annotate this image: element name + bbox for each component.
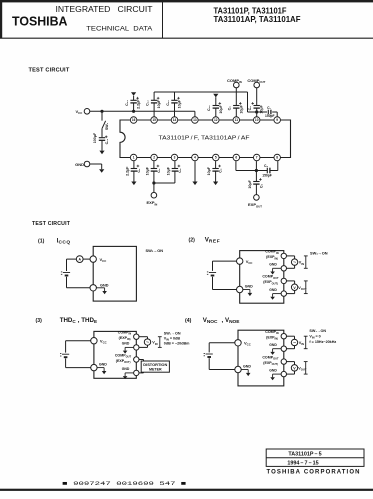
voltmeter VOUT (291, 365, 297, 371)
ground stub lower right (273, 293, 282, 295)
terminal COMP OUT (254, 82, 260, 88)
capacitor C5 10uF (253, 181, 259, 183)
svg-text:(2): (2) (189, 237, 196, 243)
pin VCC left (235, 340, 241, 346)
capacitor C6 150pF bracket (236, 170, 267, 172)
svg-text:f = 15Hz~20kHz: f = 15Hz~20kHz (309, 340, 336, 344)
svg-text:INTEGRATED CIRCUIT: INTEGRATED CIRCUIT (56, 5, 153, 14)
pin 16 (130, 117, 137, 124)
svg-text:TEST CIRCUIT: TEST CIRCUIT (32, 221, 71, 227)
ground below C14 (99, 151, 104, 155)
svg-text:C₁₂: C₁₂ (146, 100, 150, 106)
source VIN s3 (144, 339, 150, 345)
pin 4 (192, 154, 199, 161)
svg-text:C₆: C₆ (264, 164, 268, 168)
ground below pin 4 (192, 182, 197, 186)
svg-text:8: 8 (276, 156, 278, 160)
capacitor C7 150pF (257, 111, 267, 113)
svg-text:DISTORTION: DISTORTION (143, 363, 167, 367)
svg-text:GND: GND (122, 342, 130, 346)
pin GND left (235, 366, 241, 372)
page top border (0, 0, 373, 2)
svg-text:1: 1 (133, 156, 135, 160)
svg-text:SW₁→ON: SW₁→ON (146, 248, 164, 253)
header bottom rule (0, 37, 373, 39)
node VCC-pin16 junction (132, 110, 135, 113)
svg-text:2.2μF: 2.2μF (125, 166, 129, 176)
svg-text:SW₁→ON: SW₁→ON (309, 329, 326, 333)
wire C14 to ground (101, 140, 103, 150)
svg-text:METER: METER (149, 368, 162, 372)
footer bottom rule (0, 489, 373, 491)
pin COMP IN s3 (134, 334, 139, 339)
capacitor C8 10uF (256, 88, 258, 106)
voltmeter VOUT (291, 284, 297, 290)
source VIN sine (291, 339, 297, 345)
terminal COMP IN (234, 82, 240, 88)
pin 2 (151, 154, 158, 161)
svg-text:GND: GND (243, 364, 251, 368)
svg-text:GND: GND (269, 368, 277, 372)
terminal GND (84, 161, 90, 167)
svg-text:C₈: C₈ (248, 106, 252, 111)
wire SW1 to C14 (101, 129, 103, 138)
pin COMP IN (EXP IN) (281, 253, 286, 258)
wire left loop (213, 260, 237, 262)
ground stub upper right (273, 267, 282, 269)
pin COMP OUT (EXP OUT) (281, 278, 286, 283)
pin 14 (171, 117, 178, 124)
svg-text:10μF: 10μF (166, 166, 170, 175)
svg-text:C₁₄: C₁₄ (105, 138, 109, 144)
page left edge bar (0, 0, 2, 38)
svg-text:10μF: 10μF (145, 166, 149, 175)
svg-text:C₅: C₅ (259, 184, 263, 189)
svg-text:15: 15 (152, 118, 156, 122)
svg-text:3: 3 (174, 156, 176, 160)
pin GND upper right (281, 266, 286, 271)
pin 10 (253, 117, 260, 124)
svg-text:10μF: 10μF (248, 179, 252, 188)
wire source loop (287, 255, 295, 257)
ground stub left (97, 367, 104, 369)
svg-text:SW₁→ON: SW₁→ON (164, 331, 181, 335)
battery E (206, 353, 213, 355)
wire left loop (66, 340, 91, 342)
wire source loop s3 (139, 336, 148, 338)
pin GND left (237, 286, 243, 292)
capacitor C10 10uF (215, 108, 217, 117)
wire source loop (287, 335, 295, 337)
ground at GND terminal (99, 169, 104, 173)
pin 11 (233, 117, 240, 124)
source VIN sine (291, 259, 297, 265)
probe bracket VIN (305, 256, 307, 268)
svg-text:10μF: 10μF (207, 166, 211, 175)
pin COMP OUT s3 (134, 357, 139, 362)
svg-text:TECHNICAL DATA: TECHNICAL DATA (86, 26, 153, 33)
terminal EXP IN (151, 192, 157, 198)
wire to distortion meter (139, 359, 144, 361)
footer table (266, 449, 364, 466)
node C8 junction (255, 110, 258, 113)
svg-text:2.2μF: 2.2μF (137, 99, 141, 109)
svg-text:4: 4 (194, 156, 196, 160)
svg-text:TA31101AP, TA31101AF: TA31101AP, TA31101AF (214, 15, 301, 24)
svg-text:10μF: 10μF (219, 104, 223, 113)
capacitor C1 2.2uF (133, 161, 135, 168)
svg-text:■ 9097247 0019699 547 ■: ■ 9097247 0019699 547 ■ (62, 480, 187, 487)
probe bracket VOUT (305, 281, 307, 294)
svg-text:7: 7 (256, 156, 258, 160)
svg-text:(3): (3) (36, 318, 43, 324)
svg-text:16: 16 (132, 118, 136, 122)
ground stub upper right (273, 348, 282, 350)
probe bracket s3 (159, 337, 161, 348)
pin 15 (151, 117, 158, 124)
pin VCC left (237, 258, 243, 264)
terminal VCC (84, 109, 90, 115)
wire pin 4 to ground (194, 161, 196, 181)
svg-text:12: 12 (214, 118, 218, 122)
ground stub s1 (96, 287, 104, 289)
pin GND s1 (90, 285, 96, 291)
probe bracket VOUT (305, 362, 307, 375)
node EXP IN junction (152, 181, 155, 184)
wire pin 6 drop (235, 161, 237, 170)
svg-text:1994 – 7 – 15: 1994 – 7 – 15 (287, 460, 318, 466)
svg-text:GND: GND (269, 288, 277, 292)
svg-text:C₇: C₇ (267, 106, 271, 110)
svg-text:GND: GND (100, 284, 109, 288)
svg-text:(1): (1) (38, 238, 45, 244)
svg-text:100μF: 100μF (93, 132, 97, 143)
terminal EXP OUT (254, 195, 260, 201)
DUT box section 3 (94, 331, 136, 378)
svg-text:GND: GND (122, 367, 130, 371)
svg-text:TEST CIRCUIT: TEST CIRCUIT (29, 68, 70, 74)
switch SW1 (102, 121, 106, 129)
pin 5 (213, 154, 220, 161)
capacitor C11 10uF (174, 103, 176, 117)
ground stub upper s3 (125, 346, 134, 348)
pin GND upper right (281, 346, 286, 351)
wire meter loop (287, 280, 295, 282)
capacitor C9 10uF (235, 88, 237, 106)
pin 13 (192, 117, 199, 124)
svg-text:6: 6 (235, 156, 237, 160)
svg-text:C₉: C₉ (228, 106, 232, 111)
svg-text:11: 11 (235, 118, 239, 122)
wire left loop (209, 342, 235, 344)
svg-text:C₄: C₄ (219, 168, 223, 173)
pin VCC s1 (90, 256, 96, 262)
pin 9 (274, 117, 281, 124)
wire rail to pin 13 (194, 111, 196, 117)
pin 8 (274, 154, 281, 161)
battery E (62, 353, 69, 355)
svg-text:GND: GND (269, 343, 277, 347)
svg-text:150pF: 150pF (262, 173, 272, 177)
svg-text:GND: GND (99, 362, 107, 366)
IC U1 body TA31101P/F (120, 120, 291, 158)
svg-text:13: 13 (193, 118, 197, 122)
svg-text:C₂: C₂ (157, 168, 161, 173)
svg-text:C₁₃: C₁₃ (125, 100, 129, 106)
pin VCC left (91, 338, 97, 344)
capacitor C2 10uF (153, 161, 155, 168)
capacitor C4 10uF (215, 161, 217, 168)
svg-text:TOSHIBA CORPORATION: TOSHIBA CORPORATION (267, 470, 361, 476)
pin COMP IN (EXP IN) (281, 334, 286, 339)
ground stub left (243, 289, 250, 291)
svg-text:10μF: 10μF (178, 99, 182, 108)
capacitor C13 2.2uF (133, 103, 135, 111)
svg-text:C₁₀: C₁₀ (207, 105, 211, 111)
node pin7 junction on C6 bracket (255, 169, 258, 172)
svg-text:TA31101P / F, TA31101AP / AF: TA31101P / F, TA31101AP / AF (159, 136, 251, 142)
probe bracket VIN (305, 336, 307, 349)
capacitor C3 10uF (174, 161, 176, 168)
pin GND upper s3 (134, 345, 139, 350)
svg-text:GND: GND (269, 263, 277, 267)
svg-text:5: 5 (215, 156, 217, 160)
svg-text:10: 10 (255, 118, 259, 122)
pin 12 (213, 117, 220, 124)
capacitor C12 10uF (153, 103, 155, 117)
pin 6 (233, 154, 240, 161)
svg-text:C₁: C₁ (137, 168, 141, 173)
wire GND terminal (90, 163, 102, 165)
header separator vertical line (162, 0, 164, 38)
DUT box section 2 (240, 251, 284, 304)
wire pin 7 drop (255, 161, 257, 181)
svg-text:2: 2 (153, 156, 155, 160)
pin GND left (91, 364, 97, 370)
distortion meter box (141, 361, 169, 372)
pin 1 (130, 154, 137, 161)
wire s1 left loop (67, 258, 77, 260)
wire SW1 branch (101, 111, 103, 120)
capacitor C14 100uF (99, 137, 105, 139)
svg-text:10μF: 10μF (157, 99, 161, 108)
ground stub lower right (273, 373, 282, 375)
pin COMP OUT (EXP OUT) (281, 359, 286, 364)
ammeter A s1 (76, 256, 83, 263)
svg-text:14: 14 (173, 118, 177, 122)
DUT box section 4 (238, 330, 284, 386)
svg-text:0dB = −20dBm: 0dB = −20dBm (164, 341, 190, 345)
svg-text:150pF: 150pF (265, 114, 275, 118)
svg-text:SW₁: SW₁ (105, 122, 109, 130)
wire meter loop (287, 361, 295, 363)
wire rail A (154, 91, 247, 93)
pin 7 (253, 154, 260, 161)
svg-text:GND: GND (245, 284, 253, 288)
svg-text:9: 9 (276, 118, 278, 122)
wire VCC rail (90, 110, 195, 112)
svg-text:TA31101P – 5: TA31101P – 5 (288, 452, 321, 458)
pin GND lower right (281, 291, 286, 296)
svg-text:TOSHIBA: TOSHIBA (12, 15, 68, 29)
pin 3 (171, 154, 178, 161)
svg-text:C₃: C₃ (178, 168, 182, 173)
pin GND lower right (281, 371, 286, 376)
battery E (209, 272, 216, 274)
svg-text:C₁₁: C₁₁ (166, 100, 170, 106)
battery E s1 (63, 272, 70, 274)
svg-text:SW₁→ON: SW₁→ON (310, 250, 328, 255)
svg-text:10μF: 10μF (239, 104, 243, 113)
node VCC-SW1 junction (100, 110, 103, 113)
ground stub left (241, 369, 248, 371)
pin GND lower s3 (134, 370, 139, 375)
wire C2-C3 bottoms (154, 182, 175, 184)
DUT box section 1 (93, 246, 136, 301)
svg-text:(4): (4) (185, 318, 192, 324)
ground stub lower s3 (125, 372, 134, 374)
svg-text:GND: GND (75, 162, 84, 167)
